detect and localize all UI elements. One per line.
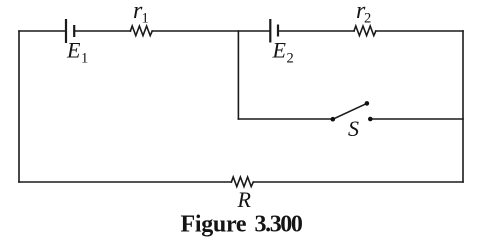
svg-text:2: 2 (287, 51, 294, 67)
svg-text:1: 1 (81, 51, 88, 67)
svg-text:2: 2 (364, 11, 371, 27)
svg-text:E: E (66, 38, 81, 63)
svg-text:R: R (237, 187, 252, 212)
svg-text:1: 1 (142, 11, 149, 27)
svg-text:E: E (272, 38, 287, 63)
svg-text:S: S (348, 116, 359, 141)
svg-text:Figure3.300: Figure3.300 (181, 212, 303, 238)
